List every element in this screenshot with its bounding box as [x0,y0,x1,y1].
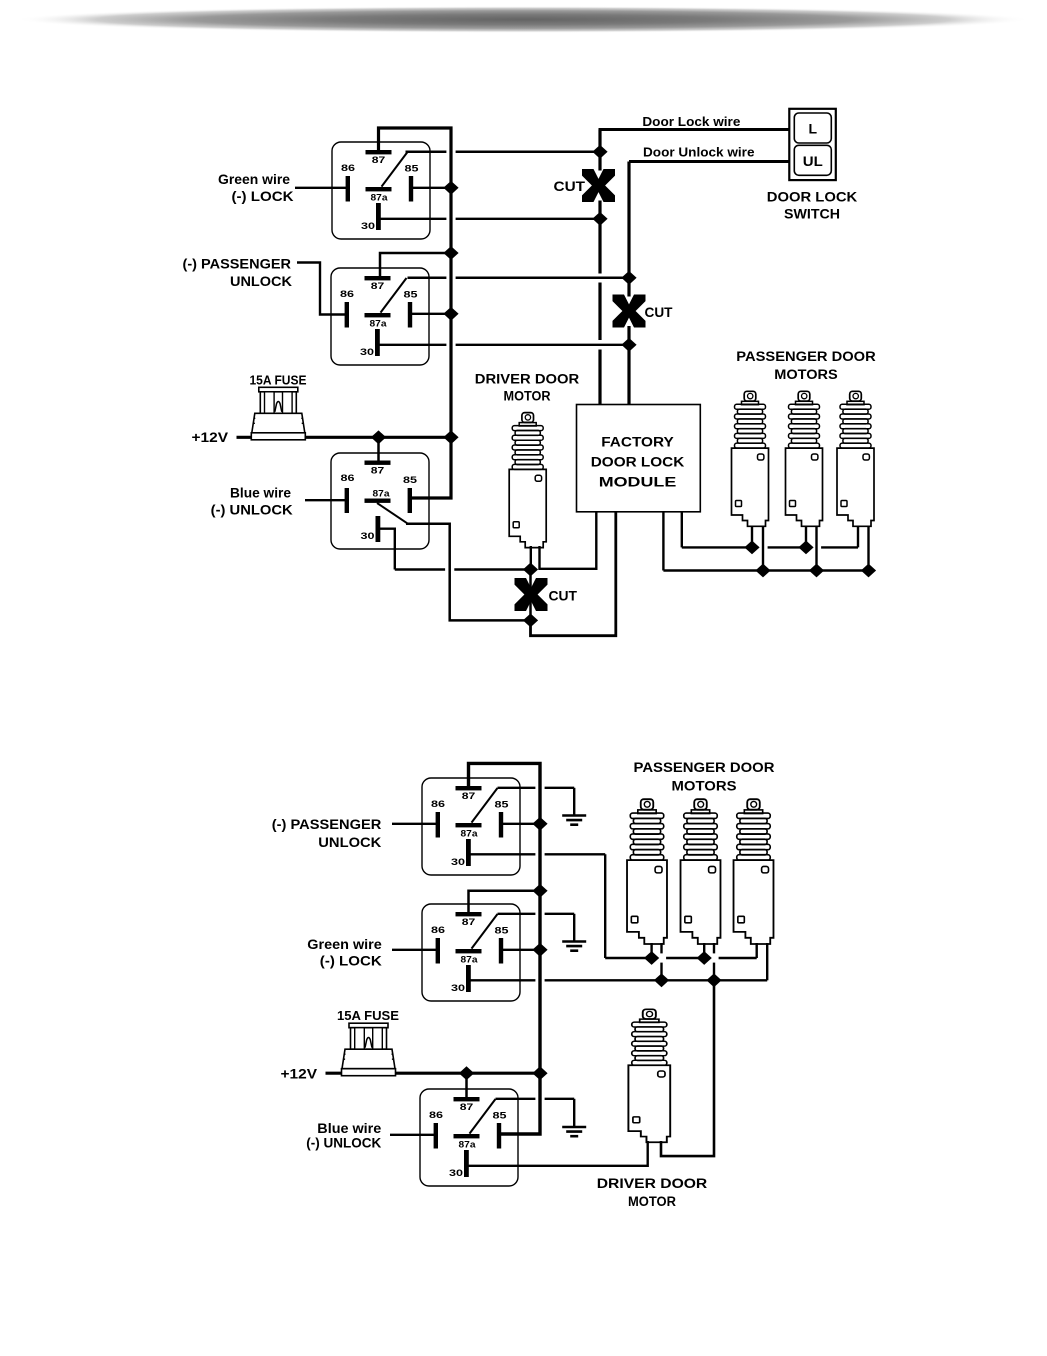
wire: driver motor left lead [530,546,532,570]
svg-text:87: 87 [372,155,386,166]
door lock switch [789,109,836,180]
svg-text:CUT: CUT [549,588,578,604]
wire: relay K5 arm to ground [498,913,536,915]
svg-text:15A FUSE: 15A FUSE [337,1008,399,1023]
svg-text:(-) LOCK: (-) LOCK [232,189,294,204]
svg-text:UNLOCK: UNLOCK [230,274,292,289]
svg-text:+12V: +12V [192,430,229,445]
wire: passenger motor 2 leads [805,526,807,547]
svg-text:30: 30 [360,347,374,358]
junction at 451,187.8 [443,181,458,195]
wire: +12V feed (bottom) [326,1072,343,1075]
svg-text:86: 86 [341,473,355,484]
wire: relay K6 arm to ground [496,1098,536,1100]
junction at 704.2,958 [697,951,712,965]
wire: relay K2 86 elbow from label [297,263,348,315]
wire: passenger motor leads (bottom) [650,943,652,958]
svg-text:MOTORS: MOTORS [672,779,737,794]
svg-text:85: 85 [405,164,420,175]
svg-text:Green wire: Green wire [218,172,291,187]
svg-text:(-) PASSENGER: (-) PASSENGER [183,256,292,271]
ground G3 [562,1126,586,1129]
svg-text:MOTOR: MOTOR [628,1194,676,1209]
junction at 600,218.8 [592,212,607,226]
wire: relay K6 30 to driver motor lead [469,1141,648,1166]
svg-text:85: 85 [495,800,510,811]
svg-text:DOOR LOCK: DOOR LOCK [591,455,685,470]
svg-text:30: 30 [449,1168,463,1179]
wire: relay K1 86 to label [295,187,349,189]
junction at 451,253 [443,246,458,260]
wire: relay K3 arm elbow to cut junction [406,524,531,621]
svg-text:85: 85 [404,290,419,301]
relay K2 Passenger unlock (top) [331,268,429,365]
wire: module pin 3 to motor lower bus [662,512,664,571]
wire: cut segment between junctions (driver motor) [529,570,532,621]
svg-text:L: L [809,121,818,137]
factory door lock module [577,405,701,512]
junction at 530.5,569.5 [523,563,538,577]
wire: relay K5 87 up to bus [469,891,541,912]
ground G1 [562,814,586,817]
junction at 540,1073.2 [532,1066,547,1080]
svg-text:30: 30 [451,983,465,994]
svg-text:30: 30 [451,857,465,868]
fuse F2 15A (bottom) [342,1023,396,1075]
motor passenger 3 (bottom) [734,799,774,944]
junction at 378.5,437.3 [371,430,386,444]
wire: passenger motor 3 leads [857,526,859,547]
fuse F1 15A (top) [251,387,305,440]
svg-text:+12V: +12V [281,1067,318,1082]
wire: relay K1 87 up-and-over to vertical A [379,128,452,498]
junction at 763,570.5 [755,564,770,578]
wire: relay K4 30 elbow to upper motor bus [470,853,535,855]
wire: relay K2 30 to vertical C [379,344,446,346]
junction at 540,823.8 [532,817,547,831]
junction at 651.6,958 [644,951,659,965]
wire: module pin 4 to motor upper bus [681,512,683,547]
svg-text:87: 87 [371,281,385,292]
svg-text:DRIVER DOOR: DRIVER DOOR [475,371,580,386]
wire: Door Unlock wire [629,160,790,163]
motor passenger 1 (bottom) [627,799,667,944]
svg-text:86: 86 [341,163,355,174]
wire: relay K2 arm to vertical C [408,277,447,280]
junction at 629,277.8 [621,271,636,285]
svg-text:MOTORS: MOTORS [774,367,838,382]
svg-text:(-) LOCK: (-) LOCK [320,954,382,969]
relay K3 Blue wire UNLOCK (top) [331,453,429,549]
svg-text:Blue wire: Blue wire [230,486,291,501]
junction at 629,344.8 [621,338,636,352]
relay K6 Blue wire UNLOCK (bottom) [420,1089,518,1186]
junction at 540,949.8 [532,943,547,957]
svg-text:DRIVER DOOR: DRIVER DOOR [597,1176,708,1191]
ground G2 [562,940,586,943]
svg-text:87a: 87a [461,829,479,840]
wire: relay K6 86 from label [390,1134,436,1136]
decorative top shadow [15,6,1031,33]
svg-text:87: 87 [371,466,385,477]
wire: relay K1 85 to vertical A [412,187,452,189]
wire: vertical B door lock run to module [598,130,601,171]
svg-text:Green wire: Green wire [307,937,382,952]
wire: driver motor right lead to module pin 1 [540,512,597,569]
svg-text:15A FUSE: 15A FUSE [250,373,307,388]
cut mark CUT2 door unlock wire [613,295,646,328]
wire: relay K1 30 to door-lock vertical [380,218,446,220]
relay K5 Green wire LOCK (bottom) [422,904,520,1001]
svg-text:87a: 87a [370,319,388,330]
svg-text:87a: 87a [371,193,389,204]
wire: relay K6 87 stem to +12V [465,1073,468,1097]
wire: relay K3 86 from label [305,499,349,501]
wire: vertical C door unlock run to module [627,162,630,297]
svg-text:87a: 87a [373,489,391,500]
relay K4 Passenger unlock (bottom) [422,778,520,875]
svg-text:DOOR LOCK: DOOR LOCK [767,189,858,204]
junction at 816.5,570.5 [809,564,824,578]
svg-text:87a: 87a [459,1140,477,1151]
wire: relay K3 30 elbow to cut junction [380,529,395,570]
junction at 451,313.8 [443,307,458,321]
wire: relay K1 arm to door-lock vertical [406,151,447,154]
svg-text:85: 85 [493,1111,508,1122]
wire: module pin 2 loop to cut junction [531,512,616,636]
svg-text:SWITCH: SWITCH [784,207,840,222]
svg-text:86: 86 [431,799,445,810]
junction at 752,547.4 [744,541,759,555]
junction at 600,151.8 [592,145,607,159]
wire: Door Lock wire [599,128,790,131]
svg-text:86: 86 [431,925,445,936]
svg-text:UNLOCK: UNLOCK [318,835,381,850]
svg-text:30: 30 [361,531,375,542]
motor passenger 1 (top) [732,391,769,526]
svg-text:Door Lock wire: Door Lock wire [642,114,740,129]
wire: relay K2 85 to vertical A [411,313,452,315]
relay K1 Green wire LOCK (top) [332,142,430,239]
svg-text:MOTOR: MOTOR [504,388,551,403]
svg-text:CUT: CUT [554,178,586,194]
wire: relay K5 86 from label [392,949,438,951]
motor driver door (bottom) [628,1009,670,1142]
junction at 530.5,620.4 [523,614,538,628]
motor passenger 3 (top) [837,391,874,526]
svg-text:86: 86 [340,289,354,300]
junction at 540,890.8 [532,884,547,898]
wire: relay K5 85 to bus [501,949,541,951]
motor passenger 2 (top) [786,391,823,526]
svg-text:MODULE: MODULE [599,475,677,490]
junction at 661.5,980.3 [654,973,669,987]
svg-text:UL: UL [803,153,823,169]
junction at 806,547.4 [798,541,813,555]
wire: bus to driver door motor (bottom) [661,980,714,1156]
svg-text:(-) UNLOCK: (-) UNLOCK [306,1136,381,1151]
svg-text:30: 30 [361,221,375,232]
svg-text:Blue wire: Blue wire [317,1121,382,1136]
svg-text:86: 86 [429,1110,443,1121]
wire: relay K2 87 up to vertical A [380,253,451,277]
svg-text:CUT: CUT [645,304,673,320]
svg-text:85: 85 [495,926,510,937]
wire: relay K4 86 from label [392,823,438,825]
svg-text:FACTORY: FACTORY [601,435,674,450]
motor passenger 2 (bottom) [681,799,721,944]
wire: main vertical bus with relay K4 87 over-wire [469,763,541,1134]
cut mark CUT1 door lock wire [582,169,615,202]
svg-text:87: 87 [462,791,476,802]
svg-text:PASSENGER DOOR: PASSENGER DOOR [634,760,775,775]
junction at 868.5,570.5 [861,564,876,578]
svg-text:(-) UNLOCK: (-) UNLOCK [211,503,293,518]
svg-text:Door Unlock wire: Door Unlock wire [643,144,755,159]
svg-text:(-) PASSENGER: (-) PASSENGER [272,817,382,832]
wire: +12V feed through fuse to vertical A [237,436,255,439]
wire: relay K4 arm to ground [498,787,536,789]
svg-text:85: 85 [403,475,418,486]
wire: relay K3 87 stem to +12V [377,437,380,461]
motor driver door (top) [509,413,546,548]
junction at 451,437.3 [443,430,458,444]
wire: relay K5 30 to lower motor bus [470,979,535,981]
junction at 466.5,1073.2 [459,1066,474,1080]
svg-text:87: 87 [462,917,476,928]
svg-text:87: 87 [460,1102,474,1113]
cut mark CUT3 driver motor wire [515,578,548,611]
junction at 714,980.3 [706,973,721,987]
svg-text:87a: 87a [461,955,479,966]
wire: relay K4 85 to bus [501,823,541,825]
wire: passenger motor 1 leads [751,526,753,547]
svg-text:PASSENGER DOOR: PASSENGER DOOR [736,349,876,364]
